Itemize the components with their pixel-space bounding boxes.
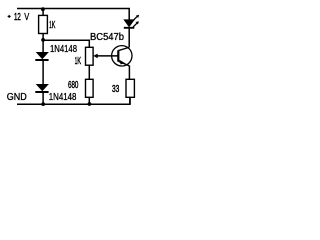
svg-text:GND: GND [7,92,27,103]
LED light arrow 1 [133,15,139,21]
resistor R1 1K body [39,15,48,33]
resistor R2 680 body [86,79,94,97]
LED light arrow 2 [133,21,139,27]
wire node to potentiometer top [43,40,89,47]
diode D1 1N4148 [35,52,48,60]
svg-text:1N4148: 1N4148 [49,92,77,103]
node junction top rail / R1 [41,7,45,11]
svg-text:V: V [24,12,29,23]
svg-text:K: K [52,20,56,31]
wire D1 cathode to D2 anode [42,60,44,85]
wire D1 anode lead [42,40,44,52]
wire R1 bottom lead [42,34,44,41]
wire emitter to R3 [128,66,130,80]
wire P1 wiper arrow to base [93,54,118,59]
LED D3 [124,20,135,28]
wire R1 top lead [42,9,44,16]
svg-text:680: 680 [68,80,79,91]
svg-text:K: K [77,56,81,67]
wire P1 bottom lead [88,65,90,79]
wire ground bottom rail [17,97,130,104]
wire D2 cathode to ground rail [42,92,44,104]
node junction R2 / ground rail [88,102,92,106]
wire LED cathode to collector [128,28,130,48]
diode D2 1N4148 [35,84,48,92]
wire R3 bottom lead [129,97,131,104]
wire R2 bottom lead [88,97,90,104]
svg-text:BC547b: BC547b [90,32,124,43]
svg-text:12: 12 [14,12,21,23]
transistor Q1 BC547b [112,46,132,66]
wire +12V top rail [17,9,129,20]
label +12V plus sign [8,15,11,18]
resistor R3 33 body [126,79,134,97]
potentiometer P1 1K body [86,47,94,65]
node junction R1 / D1 / pot branch [41,38,45,42]
svg-text:33: 33 [112,84,119,95]
svg-text:1N4148: 1N4148 [50,44,77,55]
node junction D2 / ground rail [41,102,45,106]
